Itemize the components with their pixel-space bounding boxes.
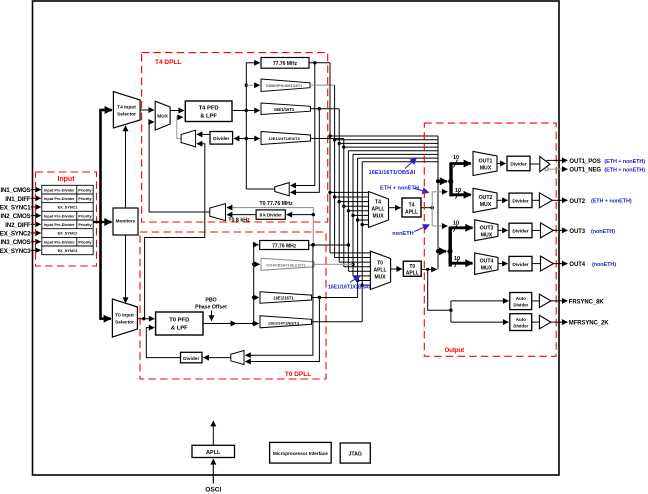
svg-text:OUT1_NEG: OUT1_NEG	[569, 168, 601, 174]
svg-text:10: 10	[453, 221, 459, 227]
thick arrow into T0 input selector	[99, 317, 111, 320]
svg-text:OUT3: OUT3	[480, 225, 494, 231]
svg-text:JTAG: JTAG	[348, 451, 361, 457]
junction trunk at GSM row	[245, 84, 248, 87]
svg-text:Divider: Divider	[513, 302, 528, 307]
input pre-divider row grid	[42, 185, 93, 254]
Output section dashed box	[424, 123, 556, 356]
wire from T0 select into mux a lower input	[145, 144, 205, 319]
svg-text:Priority: Priority	[78, 197, 92, 201]
svg-text:APLL: APLL	[406, 271, 419, 277]
bus bundle line L7	[358, 157, 438, 159]
wire ETH row to V6 (gray)	[314, 263, 353, 265]
wire monitors down to T0 selector	[125, 235, 127, 303]
OUT2 buffer	[539, 193, 552, 208]
blue port annotations	[591, 159, 645, 268]
gray arm ETH+nonETH into top bus bar	[432, 191, 447, 193]
wire 77.76 output row to V1	[309, 62, 330, 64]
svg-text:16E1/16T1/OBSAI: 16E1/16T1/OBSAI	[369, 170, 416, 176]
svg-text:Phase Offset: Phase Offset	[195, 305, 227, 311]
vertical net V8 (12E1 T0)	[361, 162, 363, 322]
8k Divider box	[256, 210, 285, 219]
svg-text:EX_SYNC3: EX_SYNC3	[0, 248, 31, 255]
vertical net V7 (16E1 T0)	[357, 158, 359, 297]
arrow trunk to 16E1 divider	[247, 110, 260, 112]
svg-text:(ETH + nonETH): (ETH + nonETH)	[591, 199, 632, 205]
wire T0 selector to T0 PFD (with junction)	[137, 318, 154, 320]
T0 feedback mux d	[231, 351, 244, 365]
svg-text:77.76 MHz: 77.76 MHz	[273, 61, 298, 67]
wire T4 APLL output to gray splitter	[421, 207, 432, 209]
T4 MUX	[155, 101, 170, 130]
T4 Divider box (feedback)	[210, 132, 233, 145]
wire 16E1 tap down into mux d	[245, 298, 319, 362]
T0 divider ETH/OBSAI/16E1/16T1 (gray)	[261, 258, 314, 270]
APLL box	[192, 445, 235, 457]
svg-text:OUT1: OUT1	[479, 158, 493, 164]
wire T0 PFD output to T0 divider trunk	[203, 323, 236, 325]
svg-text:OUT3: OUT3	[569, 229, 585, 235]
svg-text:12E1/24T1/E3/T3: 12E1/24T1/E3/T3	[268, 136, 300, 141]
wire GSM output row to V2 (gray)	[310, 84, 335, 86]
wire T4 selector to T4 MUX	[140, 109, 154, 111]
OUT1_POS line	[546, 159, 567, 161]
svg-text:IN3_CMOS: IN3_CMOS	[0, 239, 30, 246]
bottom thick bus bar	[449, 227, 452, 267]
vertical net V2 (GSM T4)	[334, 85, 336, 257]
svg-text:Divider: Divider	[213, 136, 229, 142]
svg-text:8 k Divider: 8 k Divider	[260, 213, 282, 218]
T0 APLL MUX	[370, 251, 390, 289]
wire T0 12E1 row to V8	[312, 321, 363, 323]
junction trunk at 12E1 row	[245, 137, 248, 140]
svg-text:APLL: APLL	[405, 210, 418, 216]
T4 APLL box	[402, 198, 421, 217]
MFRSYNC buffer	[539, 315, 551, 328]
junction T0 77.76 output gray riser	[312, 243, 315, 246]
thick arm to OUT1 MUX	[450, 162, 471, 165]
svg-text:77.76 MHz: 77.76 MHz	[272, 244, 297, 250]
MFRSYNC_2K line	[551, 321, 567, 323]
svg-text:T0: T0	[409, 264, 415, 270]
wire input block to monitors (thick)	[93, 221, 111, 223]
svg-text:T0 77.76 MHz: T0 77.76 MHz	[259, 201, 293, 207]
wire 16E1 output row to V3	[311, 108, 340, 110]
OUT1_NEG bubble	[545, 168, 548, 171]
svg-text:OSCI: OSCI	[205, 487, 221, 494]
wire mux b output to T4 MUX second input	[149, 122, 210, 212]
bus bundle line L3	[339, 142, 438, 144]
gray arm nonETH into bottom bus bar	[432, 225, 447, 227]
svg-text:(nonETH): (nonETH)	[591, 229, 615, 235]
svg-text:EX_SYNC2: EX_SYNC2	[58, 232, 78, 236]
arrow trunk to T0 16E1 divider	[254, 297, 259, 299]
OUT3 Divider	[509, 223, 532, 238]
FRSYNC_8K line	[551, 300, 567, 302]
svg-text:OUT2: OUT2	[569, 199, 585, 205]
vertical net V4 (12E1 T4)	[343, 139, 345, 267]
wire T0 16E1 row to V7	[312, 297, 358, 299]
svg-text:10: 10	[453, 155, 459, 161]
FRSYNC buffer	[539, 294, 551, 308]
svg-text:Auto: Auto	[516, 296, 526, 301]
svg-text:Priority: Priority	[78, 188, 92, 192]
Auto Divider (MFRSYNC)	[510, 314, 532, 331]
svg-text:12E1/24T1/E3/T3: 12E1/24T1/E3/T3	[268, 320, 300, 325]
svg-text:IN1_CMOS: IN1_CMOS	[0, 187, 30, 194]
wire T0 feedback into PFD second input	[146, 328, 180, 358]
svg-text:ETH + nonETH: ETH + nonETH	[380, 185, 419, 191]
arrow PBO into PFD output line	[211, 311, 213, 321]
wire monitors up to T4 selector	[125, 126, 127, 208]
OUT2 line	[552, 199, 567, 201]
T4 DPLL dashed box	[142, 53, 328, 222]
T0 APLL MUX input staircase	[330, 253, 370, 285]
wire OUT2 MUX to divider	[497, 199, 508, 201]
vertical net V5 (77.76 T0)	[347, 151, 349, 271]
svg-text:Input Pre-Divider: Input Pre-Divider	[44, 223, 75, 227]
T4 fast feedback mux c	[275, 183, 290, 196]
bus bundle line L4	[344, 146, 438, 148]
svg-text:(ETH + nonETH): (ETH + nonETH)	[604, 168, 645, 174]
svg-text:Input Pre-Divider: Input Pre-Divider	[44, 214, 75, 218]
wire T0 77.76 row to V5	[309, 244, 349, 246]
T0 divider 12E1/24T1/E3/T3	[260, 316, 312, 328]
arrow trunk to T0 77.76 MHz divider	[254, 244, 259, 246]
wire T4 feedback into PFD second input (gray riser)	[177, 117, 183, 138]
svg-text:Input: Input	[57, 176, 75, 183]
svg-text:T4 Input: T4 Input	[117, 105, 136, 111]
junction T0 trunk at ETH row	[252, 263, 255, 266]
wire junction to frame sync dividers	[450, 301, 452, 322]
OUT3 line	[553, 229, 567, 231]
svg-text:& LPF: & LPF	[171, 325, 188, 331]
svg-text:MUX: MUX	[480, 202, 492, 208]
wire 16E1 tap down into mux c	[291, 109, 320, 193]
thick selected-input bus vertical	[99, 110, 102, 319]
APLL output arrow up	[212, 421, 214, 445]
arrow trunk to GSM divider (gray)	[246, 84, 259, 86]
input port arrows into pre-divider rows	[31, 190, 41, 251]
OUT1_NEG line (gray)	[548, 168, 567, 170]
bus bundle line L8	[362, 161, 438, 163]
wire tap into 8k Divider	[287, 214, 314, 216]
T4 low-rate feedback mux b	[210, 204, 226, 221]
wire OUT4 MUX to divider	[498, 263, 508, 265]
Microprocessor Interface box	[270, 442, 332, 463]
junction 16E1 tap	[318, 296, 321, 299]
OUT4 line	[553, 263, 567, 265]
wire OUT3 MUX to divider	[498, 229, 508, 231]
thick arrow trunk to top bus bar	[438, 180, 447, 182]
svg-text:EX_SYNC2: EX_SYNC2	[0, 231, 31, 238]
svg-text:T0 Input: T0 Input	[115, 313, 134, 319]
T4 PFD & LPF	[185, 101, 232, 122]
bus bundle line L5	[348, 150, 438, 152]
wire divider to OUT2 buffer	[532, 199, 539, 201]
wire mux c output up to T4 Divider input	[246, 188, 274, 190]
svg-text:Monitors: Monitors	[116, 219, 136, 224]
svg-text:Divider: Divider	[512, 262, 528, 268]
arrow trunk to 77.76 MHz divider	[246, 62, 259, 64]
svg-text:MUX: MUX	[481, 232, 493, 238]
svg-text:MUX: MUX	[372, 214, 384, 220]
T0 divider feed trunk	[253, 245, 255, 324]
svg-text:T0 DPLL: T0 DPLL	[285, 371, 311, 378]
bus bundle line L6	[353, 153, 438, 155]
svg-text:(ETH + nonETH): (ETH + nonETH)	[604, 159, 645, 165]
svg-text:EX_SYNC1: EX_SYNC1	[0, 205, 31, 212]
wire T4 APLL MUX to T4 APLL	[389, 207, 401, 209]
wire T0 77.76MHz gray feed into mux b	[227, 208, 313, 245]
T0 divider 77.76 MHz	[260, 241, 309, 250]
OUT1 MUX	[473, 151, 497, 175]
junction PFD output	[245, 109, 248, 112]
vertical net V3 (16E1 T4)	[338, 109, 340, 262]
wire OUT1 MUX to divider	[497, 163, 506, 165]
vertical net V1 (77.76 T4)	[329, 63, 331, 253]
svg-text:Input Pre-Divider: Input Pre-Divider	[44, 197, 75, 201]
right side port labels	[569, 159, 609, 327]
T0 DPLL dashed box	[140, 232, 326, 379]
wire T0 APLL branch down to sync dividers	[428, 269, 451, 310]
blue arrow to nonETH arm	[415, 225, 430, 232]
top thick bus bar	[449, 163, 452, 197]
wire divider to OUT1 buffer	[530, 163, 539, 165]
svg-text:Priority: Priority	[78, 223, 92, 227]
svg-text:EX_SYNC1: EX_SYNC1	[58, 206, 78, 210]
wire T4 Divider to feedback mux a	[197, 133, 210, 135]
Input section dashed box	[36, 172, 97, 266]
svg-text:Auto: Auto	[516, 317, 526, 322]
svg-text:ETH/OBSAI/16E1/16T1: ETH/OBSAI/16E1/16T1	[266, 263, 305, 267]
svg-text:IN2_DIFF: IN2_DIFF	[5, 222, 31, 229]
wire divider to OUT3 buffer	[532, 229, 540, 231]
wire T4 PFD output to divider trunk	[232, 110, 246, 112]
T4 feedback mux a	[181, 130, 196, 147]
OUT3 MUX	[475, 220, 498, 241]
T4 Input Selector	[113, 92, 140, 128]
svg-text:APLL: APLL	[371, 207, 384, 213]
svg-text:Selector: Selector	[115, 320, 134, 326]
svg-text:T4 PFD: T4 PFD	[199, 106, 219, 112]
output bus trunk	[437, 136, 439, 269]
svg-text:Selector: Selector	[117, 112, 136, 118]
wire 77.76 tap down into mux c	[291, 63, 315, 186]
T4 divider feed trunk	[245, 63, 247, 189]
svg-text:T4 DPLL: T4 DPLL	[155, 59, 181, 66]
T4 APLL MUX input staircase	[330, 192, 369, 224]
wire mux d output into T0 Divider	[204, 357, 231, 359]
svg-text:EX_SYNC3: EX_SYNC3	[58, 249, 78, 253]
svg-text:MUX: MUX	[481, 266, 493, 272]
svg-text:Priority: Priority	[78, 240, 92, 244]
OUT3 buffer	[541, 223, 554, 238]
svg-text:FRSYNC_8K: FRSYNC_8K	[569, 300, 605, 306]
input row cell texts	[44, 188, 93, 253]
wire to MFRSYNC buffer	[532, 321, 539, 323]
vertical net V6 (ETH T0)	[352, 154, 354, 276]
OUT2 MUX	[473, 188, 497, 212]
blue arrow to T0 staircase	[350, 276, 360, 282]
svg-text:APLL: APLL	[373, 267, 386, 273]
arrow trunk to T0 12E1 divider	[254, 323, 258, 325]
svg-text:MUX: MUX	[480, 165, 492, 171]
svg-text:OUT2: OUT2	[479, 195, 493, 201]
svg-text:T0: T0	[377, 260, 383, 266]
T4 divider 16E1/16T1	[261, 103, 311, 115]
thick arrow into T4 input selector	[99, 109, 112, 112]
T4 divider 12E1/24T1/E3/T3	[261, 132, 311, 145]
sync divider feed junction	[449, 309, 452, 312]
Monitors block	[113, 208, 138, 235]
gray splitter vertical	[431, 192, 433, 226]
svg-text:MFRSYNC_2K: MFRSYNC_2K	[569, 321, 609, 327]
thick arrow trunk to bottom bus bar	[438, 250, 446, 252]
svg-text:T0 8 kHz: T0 8 kHz	[228, 218, 250, 224]
T4 divider 77.76 MHz	[261, 58, 309, 69]
bus bundle line L1	[330, 135, 438, 137]
svg-text:IN1_DIFF: IN1_DIFF	[5, 196, 31, 203]
svg-text:Divider: Divider	[513, 324, 528, 329]
blue arrow to bus bundle	[405, 158, 417, 169]
svg-text:GSM/GPS/16E1/16T1: GSM/GPS/16E1/16T1	[266, 84, 302, 88]
thick arm to OUT3 MUX	[449, 226, 472, 229]
wire T0 APLL MUX to T0 APLL	[391, 268, 402, 270]
T4 APLL MUX	[369, 192, 389, 228]
svg-text:MUX: MUX	[157, 114, 168, 120]
svg-text:T4: T4	[409, 203, 415, 209]
svg-text:Input Pre-Divider: Input Pre-Divider	[44, 188, 75, 192]
junction input bus	[99, 220, 103, 224]
svg-text:16E1/16T1: 16E1/16T1	[273, 296, 294, 301]
svg-text:Divider: Divider	[183, 356, 199, 362]
wire 8k Divider output into mux b	[227, 214, 256, 216]
svg-text:& LPF: & LPF	[200, 113, 217, 119]
wire 12E1 output row to V4	[311, 138, 344, 140]
svg-text:PBO: PBO	[205, 298, 216, 304]
blue arrow to ETH+nonETH arm	[414, 188, 429, 192]
OSCI input line	[212, 459, 214, 483]
wire divider to OUT4 buffer	[532, 263, 540, 265]
bus bundle line L2	[335, 139, 438, 141]
junction T0 trunk at 16E1 row	[252, 296, 255, 299]
OUT2 Divider	[509, 193, 532, 208]
junction T0 PFD output	[252, 322, 255, 325]
wire T4 MUX to T4 PFD	[170, 110, 184, 112]
OUT4 MUX	[475, 253, 498, 275]
svg-text:Microprocessor Interface: Microprocessor Interface	[273, 451, 328, 456]
junction 8k divider tap	[312, 213, 315, 216]
T0 divider 16E1/16T1	[260, 292, 312, 303]
svg-text:MUX: MUX	[374, 274, 386, 280]
svg-text:OUT1_POS: OUT1_POS	[569, 159, 600, 165]
svg-text:T4: T4	[375, 200, 381, 206]
svg-text:Divider: Divider	[512, 229, 528, 235]
T0 Input Selector	[112, 299, 137, 337]
svg-text:(nonETH): (nonETH)	[592, 262, 616, 268]
arrow trunk to ETH/OBSAI divider (gray)	[254, 263, 260, 265]
OUT4 Divider	[509, 256, 532, 271]
svg-text:APLL: APLL	[206, 450, 221, 456]
arrow trunk to 12E1 divider	[247, 138, 260, 140]
OUT1 differential buffer	[540, 156, 550, 171]
svg-text:OUT4: OUT4	[480, 259, 494, 265]
svg-text:Priority: Priority	[78, 214, 92, 218]
svg-text:OUT4: OUT4	[569, 262, 585, 268]
OUT1 Divider	[507, 156, 530, 171]
wire T0 APLL output into trunk	[421, 268, 436, 270]
svg-text:nonETH: nonETH	[392, 231, 413, 237]
thick arm to OUT2 MUX	[450, 193, 471, 196]
wire to FRSYNC buffer	[532, 300, 539, 302]
svg-text:16E1/16T1/OBSAI: 16E1/16T1/OBSAI	[328, 285, 370, 291]
T0 APLL box	[403, 261, 421, 276]
JTAG box	[340, 443, 370, 463]
arrow trunk left into T4 Divider box	[234, 138, 246, 140]
Auto Divider (FRSYNC)	[510, 293, 532, 310]
wire 77.76 tap down into mux d	[245, 245, 313, 355]
svg-text:IN2_CMOS: IN2_CMOS	[0, 213, 30, 220]
OUT4 buffer	[541, 256, 554, 271]
svg-text:Output: Output	[444, 347, 464, 354]
T0 Divider box (feedback)	[181, 352, 203, 363]
thick arm to OUT4 MUX	[449, 262, 472, 265]
chip boundary	[33, 1, 560, 475]
svg-text:16E1/16T1: 16E1/16T1	[274, 107, 295, 112]
svg-text:Divider: Divider	[510, 162, 526, 168]
svg-text:Input Pre-Divider: Input Pre-Divider	[44, 240, 75, 244]
svg-text:Divider: Divider	[512, 199, 528, 205]
T0 PFD & LPF	[156, 312, 203, 335]
svg-text:T0 PFD: T0 PFD	[169, 318, 189, 324]
T4 divider GSM/GPS/16E1/16T1	[261, 79, 310, 92]
